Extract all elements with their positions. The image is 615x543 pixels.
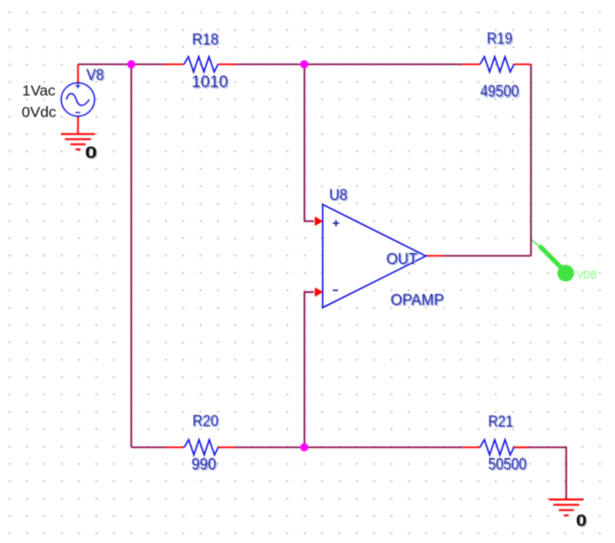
svg-text:R19: R19: [487, 31, 513, 48]
svg-text:49500: 49500: [480, 83, 519, 101]
svg-text:1010: 1010: [192, 73, 229, 91]
svg-text:V8: V8: [86, 67, 104, 84]
svg-text:50500: 50500: [488, 456, 526, 474]
svg-text:VDB: VDB: [577, 269, 597, 281]
svg-text:U8: U8: [329, 187, 347, 204]
svg-text:1Vac: 1Vac: [22, 83, 55, 99]
svg-text:OPAMP: OPAMP: [391, 292, 444, 309]
svg-text:990: 990: [192, 456, 217, 474]
svg-text:0Vdc: 0Vdc: [22, 105, 57, 121]
svg-text:OUT: OUT: [386, 251, 417, 268]
svg-text:R18: R18: [192, 31, 219, 48]
svg-text:R21: R21: [488, 414, 513, 431]
svg-text:0: 0: [85, 143, 97, 162]
svg-text:0: 0: [576, 511, 587, 530]
svg-text:R20: R20: [192, 413, 218, 430]
